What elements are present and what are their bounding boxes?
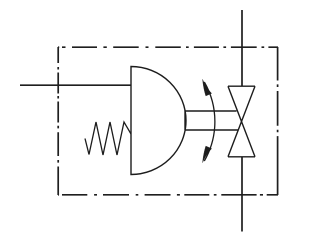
actuator body (quarter-turn semicircular actuator) xyxy=(131,67,186,175)
valve body lower edge (butterfly valve bottom) xyxy=(228,156,255,158)
wire: pilot input line (left horizontal) xyxy=(20,84,131,86)
rotation arc (swivel motion indicator) xyxy=(204,82,215,161)
wire: upper pipe line (vertical, into valve) xyxy=(241,10,243,86)
enclosure boundary (dash-dot box) left edge xyxy=(57,47,59,195)
stem rectangle (actuator shaft to valve) xyxy=(185,111,238,130)
valve body upper edge (butterfly valve top) xyxy=(228,85,255,87)
valve diagonal B (upper-right to lower-left) xyxy=(228,86,255,157)
enclosure boundary (dash-dot box) top edge xyxy=(58,46,278,48)
valve diagonal A (upper-left to lower-right) xyxy=(228,86,255,157)
arrowhead top (rotation arrow) xyxy=(203,79,212,96)
wire: lower pipe line (vertical, out of valve) xyxy=(241,157,243,232)
arrowhead bottom (rotation arrow) xyxy=(203,146,212,163)
spring (return spring inside actuator) xyxy=(85,122,131,155)
enclosure boundary (dash-dot box) right edge xyxy=(277,47,279,195)
enclosure boundary (dash-dot box) bottom edge xyxy=(58,194,278,196)
